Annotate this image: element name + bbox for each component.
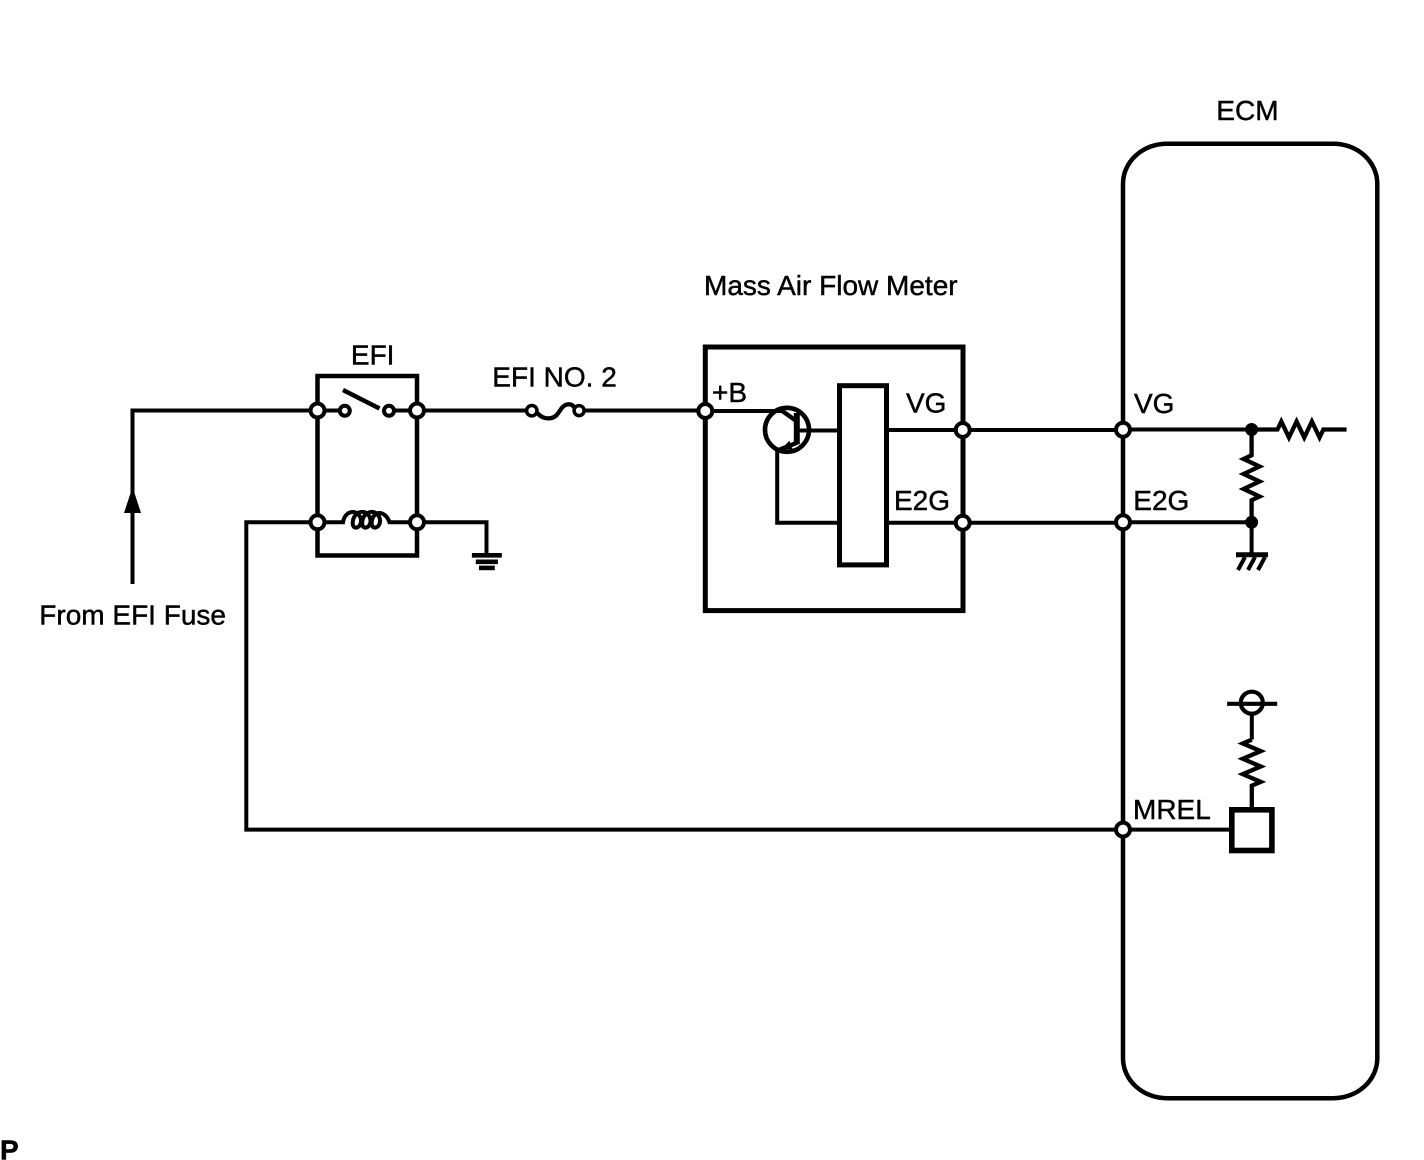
wire from EFI fuse riser	[133, 411, 311, 585]
ECM box	[1123, 144, 1377, 1098]
wire MREL (relay coil to ECM)	[246, 522, 1115, 829]
wire element VG	[887, 428, 956, 432]
wire fuse to MAF +B	[585, 409, 698, 413]
wire relay to fuse	[425, 409, 527, 413]
svg-text:EFI NO. 2: EFI NO. 2	[492, 362, 616, 393]
power symbol (battery feed)	[1227, 692, 1277, 714]
wire VG to ECM	[971, 428, 1115, 432]
svg-text:EFI: EFI	[351, 340, 395, 371]
relay switch blade	[343, 390, 380, 409]
ECM terminal VG	[1116, 423, 1130, 437]
ECM terminal E2G	[1116, 515, 1130, 529]
ground (ECM signal ground)	[1236, 528, 1268, 570]
relay terminal top-right	[410, 404, 424, 418]
relay switch fixed contact right	[384, 406, 394, 416]
relay switch fixed contact left	[340, 406, 350, 416]
wire coil to ground	[425, 522, 487, 555]
svg-text:E2G: E2G	[894, 485, 950, 516]
svg-text:ECM: ECM	[1216, 95, 1278, 126]
wire E2G inside ECM	[1131, 520, 1251, 524]
svg-text:VG: VG	[906, 388, 946, 419]
relay terminal bottom-right	[410, 515, 424, 529]
MAF terminal E2G	[956, 516, 970, 530]
svg-text:Mass Air Flow Meter: Mass Air Flow Meter	[704, 270, 958, 301]
svg-text:MREL: MREL	[1133, 794, 1211, 825]
fuse EFI NO. 2	[527, 404, 585, 418]
relay terminal top-left	[311, 404, 325, 418]
svg-text:+B: +B	[712, 377, 747, 408]
driver block (MREL output)	[1232, 810, 1272, 851]
svg-text:P: P	[0, 1135, 19, 1160]
wire switch contacts	[318, 409, 343, 413]
wire VG inside ECM	[1131, 428, 1251, 432]
MAF element (hot wire)	[840, 386, 887, 565]
relay EFI box	[318, 376, 418, 556]
arrowhead on From EFI Fuse wire	[124, 487, 141, 513]
MAF terminal VG	[956, 423, 970, 437]
wire MREL inside ECM	[1131, 828, 1231, 832]
junction VG	[1245, 423, 1258, 436]
wire +B to transistor	[713, 409, 784, 413]
svg-text:From EFI Fuse: From EFI Fuse	[39, 600, 226, 631]
resistor R1	[1252, 422, 1347, 438]
relay coil	[325, 512, 410, 528]
wire emitter to element	[777, 449, 839, 523]
relay terminal bottom-left	[311, 515, 325, 529]
svg-text:VG: VG	[1134, 388, 1174, 419]
transistor Q1	[765, 408, 809, 452]
junction E2G	[1245, 516, 1258, 529]
wire element E2G	[887, 521, 956, 525]
resistor R3	[1243, 740, 1261, 810]
ground (relay coil)	[472, 555, 502, 568]
wire base to element	[798, 429, 841, 433]
wire power to R3	[1250, 714, 1254, 740]
MAF box	[705, 347, 963, 611]
svg-text:E2G: E2G	[1133, 485, 1189, 516]
resistor R2	[1244, 430, 1260, 523]
wire E2G to ECM	[971, 521, 1115, 525]
MAF terminal +B	[698, 404, 712, 418]
ECM terminal MREL	[1116, 823, 1130, 837]
